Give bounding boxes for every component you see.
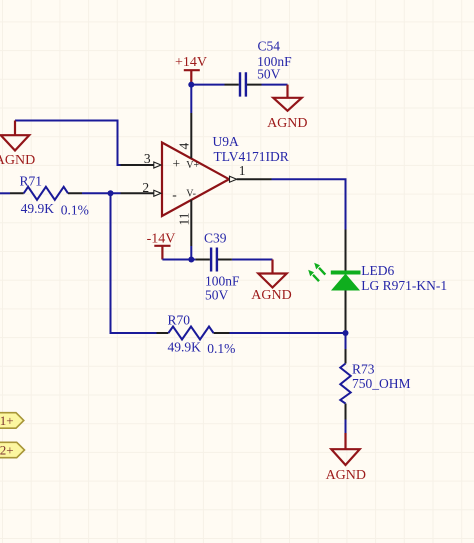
svg-text:+: + [172, 156, 180, 171]
ground AGND (bottom, at R73) [326, 433, 366, 483]
svg-text:49.9K: 49.9K [168, 339, 202, 354]
pin 4 [176, 113, 191, 158]
pin 2 [121, 180, 162, 196]
wire junction down to R70 [111, 193, 157, 333]
resistor R70 [157, 312, 236, 356]
svg-text:AGND: AGND [267, 116, 307, 131]
svg-text:100nF: 100nF [205, 274, 240, 289]
node junction LED/R70/R73 [343, 330, 349, 336]
port S1+ [0, 413, 24, 429]
svg-text:3: 3 [144, 151, 151, 166]
wire R70 to LED junction [230, 332, 346, 334]
svg-text:AGND: AGND [251, 288, 291, 303]
svg-text:TLV4171IDR: TLV4171IDR [214, 149, 289, 164]
power -14V [147, 231, 176, 259]
port S2+ [0, 442, 25, 457]
svg-text:U9A: U9A [213, 134, 239, 149]
svg-text:R71: R71 [20, 174, 43, 189]
svg-text:0.1%: 0.1% [61, 202, 89, 217]
svg-text:+14V: +14V [175, 55, 207, 70]
LED LED6 [308, 230, 447, 334]
svg-text:LG R971-KN-1: LG R971-KN-1 [361, 278, 447, 293]
svg-text:-14V: -14V [147, 231, 176, 246]
pin 1 [230, 163, 272, 182]
svg-text:50V: 50V [205, 288, 229, 303]
power +14V [175, 55, 207, 84]
capacitor C39 [196, 231, 240, 303]
ground AGND (at C39) [251, 260, 291, 303]
svg-text:49.9K: 49.9K [21, 201, 55, 216]
svg-text:V-: V- [186, 188, 196, 199]
svg-text:11: 11 [177, 213, 192, 226]
svg-text:AGND: AGND [0, 153, 35, 168]
node junction at R71/pin2 [108, 190, 114, 196]
wire +14V rail [191, 85, 287, 113]
ground AGND (left, at pin 3) [0, 121, 35, 168]
svg-text:R73: R73 [352, 361, 375, 376]
svg-text:50V: 50V [257, 67, 281, 82]
wire -14V rail [162, 246, 272, 260]
svg-text:S1+: S1+ [0, 413, 14, 428]
pin 3 [121, 151, 162, 168]
svg-text:0.1%: 0.1% [207, 341, 235, 356]
wire AGND-left to pin3 net [15, 121, 121, 166]
svg-text:C39: C39 [204, 231, 227, 246]
svg-text:V+: V+ [186, 160, 199, 171]
node junction at pin11 / -14V [188, 257, 194, 263]
svg-text:AGND: AGND [326, 468, 366, 483]
node junction under +14V [188, 82, 194, 88]
wire op-amp output to LED [272, 179, 346, 229]
pin 11 [177, 200, 192, 246]
svg-text:750_OHM: 750_OHM [352, 376, 411, 391]
svg-text:-: - [172, 187, 177, 202]
svg-text:S2+: S2+ [0, 443, 14, 458]
op-amp U9A [162, 134, 289, 216]
svg-text:4: 4 [176, 143, 191, 150]
svg-text:2: 2 [142, 180, 149, 195]
resistor R73 [340, 333, 410, 433]
svg-text:LED6: LED6 [361, 263, 394, 278]
resistor R71 [0, 174, 89, 218]
capacitor C54 [225, 39, 293, 97]
svg-text:C54: C54 [258, 39, 281, 54]
wire R71 to pin2 [82, 192, 121, 194]
ground AGND (top, at C54) [267, 85, 307, 131]
svg-text:R70: R70 [168, 312, 191, 327]
svg-text:1: 1 [239, 163, 246, 178]
